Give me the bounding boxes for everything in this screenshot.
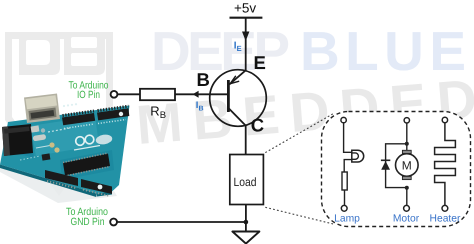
svg-text:Load: Load [234, 175, 257, 189]
top pin header strip B [97, 108, 129, 120]
svg-text:C: C [251, 115, 264, 136]
bottom header strip B [81, 179, 112, 194]
callout dashed line lower [265, 207, 334, 224]
IE current arrow [242, 32, 249, 42]
wire load to junction and ground [245, 205, 247, 232]
bottom header strip A [45, 170, 78, 186]
lamp symbol [352, 150, 364, 162]
crystal [33, 134, 47, 141]
usb front slot [29, 108, 57, 121]
lamp wires [344, 123, 352, 206]
heater element meander [435, 123, 456, 206]
power jack [2, 124, 33, 156]
board pcb bottom edge [0, 165, 97, 198]
svg-text:IB: IB [196, 100, 204, 112]
board pcb top face [0, 106, 130, 194]
heater top terminal [442, 117, 447, 122]
dashed loads blob [322, 112, 471, 227]
watermark logo shield [0, 28, 120, 244]
mounting holes [98, 185, 103, 190]
white pin labels below headers [64, 124, 94, 129]
arduino logo infinity [76, 137, 85, 146]
Arduino Uno board photo [0, 90, 135, 215]
motor brush top [402, 150, 411, 153]
svg-text:+5v: +5v [234, 1, 256, 16]
svg-text:GND Pin: GND Pin [71, 216, 105, 228]
motor bottom terminal [404, 205, 410, 211]
transistor emitter diagonal [229, 70, 245, 84]
dip ic atmega [63, 154, 110, 176]
resistor RB [140, 89, 175, 100]
base wire resistor to transistor [175, 93, 228, 95]
collector wire [245, 126, 247, 155]
svg-text:Lamp: Lamp [334, 213, 360, 224]
transistor emitter arrow (PNP, open V) [230, 76, 239, 84]
svg-text:Motor: Motor [393, 213, 420, 224]
svg-text:M: M [402, 158, 412, 172]
usb connector body [24, 94, 60, 124]
IB current arrow [193, 91, 199, 98]
svg-text:Heater: Heater [430, 213, 461, 224]
ground symbol [232, 232, 259, 244]
caps [49, 142, 54, 147]
motor top wire [406, 123, 408, 150]
flyback diode branch wires [386, 144, 407, 188]
transistor Q1 PNP circle [210, 70, 267, 127]
motor circle [396, 154, 419, 177]
board shadow [0, 168, 117, 203]
motor top terminal [404, 118, 409, 123]
svg-text:B: B [197, 69, 210, 90]
silver caps left area [33, 126, 39, 132]
pcb lighter patches [30, 116, 99, 156]
motor bottom junction dot [405, 186, 409, 190]
silkscreen text line [74, 146, 100, 151]
transistor collector diagonal [228, 108, 245, 126]
header metal contacts [47, 181, 77, 188]
load box [230, 155, 264, 205]
silkscreen texture [14, 135, 30, 138]
top pin header strip A [62, 113, 95, 125]
white dot row right of usb [63, 105, 65, 107]
motor bottom wire [406, 188, 408, 206]
junction dot [244, 220, 249, 225]
motor top junction dot [405, 142, 409, 146]
heater bottom terminal [442, 205, 448, 211]
flyback diode D1 [381, 159, 390, 161]
IO pin terminal circle [111, 91, 118, 98]
lamp resistor [342, 172, 347, 190]
wire +5v to emitter [245, 18, 247, 71]
svg-text:RB: RB [150, 103, 166, 121]
callout dashed line upper [265, 114, 333, 153]
base wire left terminal to resistor [117, 93, 140, 95]
UNO oval badge [95, 133, 113, 145]
motor brush bottom [402, 176, 411, 179]
transistor base bar [227, 80, 230, 112]
usb top plate [26, 95, 58, 109]
svg-text:E: E [254, 52, 266, 73]
reset button [31, 125, 40, 132]
gnd horizontal wire [117, 221, 246, 223]
lamp top terminal [341, 117, 346, 122]
+5v power rail bar [230, 17, 263, 19]
lamp bottom terminal [341, 205, 347, 211]
GND pin terminal circle [110, 219, 117, 226]
svg-text:IE: IE [234, 41, 242, 53]
